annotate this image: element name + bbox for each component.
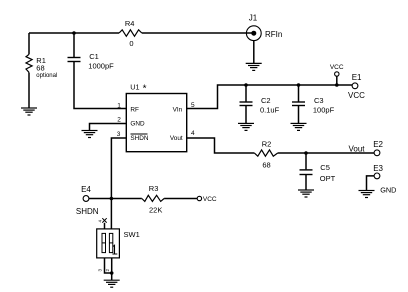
svg-text:2: 2 — [117, 116, 121, 123]
junction VCC stem — [335, 83, 339, 87]
op-amp U1 box — [126, 94, 186, 152]
resistor R4 — [119, 30, 142, 37]
wire SW1 top-left stub — [104, 223, 106, 229]
ground R1 — [21, 108, 37, 115]
resistor R1 — [26, 54, 32, 72]
capacitor C3 — [292, 102, 305, 106]
svg-text:R4: R4 — [125, 19, 135, 28]
svg-text:VCC: VCC — [348, 91, 365, 100]
svg-text:VCC: VCC — [330, 64, 344, 71]
svg-text:2: 2 — [105, 269, 110, 272]
SW1 digit 1 — [112, 245, 117, 254]
wire VCC stem — [336, 76, 338, 85]
svg-text:J1: J1 — [249, 14, 258, 23]
ground C5 — [298, 190, 314, 197]
resistor R2 — [254, 150, 277, 156]
capacitor C5 — [300, 170, 313, 175]
junction SHDN node — [110, 197, 114, 201]
svg-text:1: 1 — [117, 103, 121, 110]
wire VIn pin 5 to E1 — [187, 85, 352, 109]
svg-text:OPT: OPT — [320, 174, 336, 183]
svg-text:VIn: VIn — [173, 106, 183, 113]
wire C2 stem — [245, 85, 247, 123]
ground J1 — [246, 63, 262, 70]
svg-text:*: * — [143, 83, 147, 94]
svg-text:4: 4 — [191, 130, 195, 137]
resistor R3 — [142, 195, 164, 201]
junction C1 top — [72, 31, 76, 35]
svg-text:C5: C5 — [320, 163, 330, 172]
svg-text:U1: U1 — [130, 82, 139, 91]
capacitor C1 — [68, 58, 81, 62]
svg-text:R2: R2 — [262, 140, 272, 149]
svg-text:4: 4 — [97, 220, 102, 223]
wire C3 stem — [298, 85, 300, 123]
junction C5 top — [304, 151, 308, 155]
svg-text:RFIn: RFIn — [265, 30, 282, 39]
terminal E1 — [352, 83, 358, 89]
terminal E2 — [374, 150, 380, 156]
svg-text:Vout: Vout — [170, 135, 183, 142]
wire left vertical above R1 — [28, 33, 30, 54]
svg-text:VCC: VCC — [203, 196, 217, 203]
terminal E4 — [83, 196, 89, 202]
svg-text:SHDN: SHDN — [130, 135, 148, 142]
svg-text:C3: C3 — [314, 96, 324, 105]
ground U1 GND pin — [82, 131, 98, 138]
svg-text:C1: C1 — [89, 52, 99, 61]
SW1 no-connect X mark pin 4 — [102, 218, 106, 222]
svg-text:GND: GND — [380, 186, 396, 195]
wire R1 to ground — [28, 73, 30, 109]
connector J1 — [246, 14, 282, 41]
ground SW1 — [104, 280, 120, 287]
svg-text:3: 3 — [98, 269, 103, 272]
wire GND pin 2 — [90, 124, 127, 131]
wire R3 to VCC — [164, 198, 197, 200]
svg-text:Vout: Vout — [348, 144, 365, 153]
svg-text:22K: 22K — [149, 206, 162, 215]
junction C2 top — [244, 83, 248, 87]
svg-text:optional: optional — [36, 73, 57, 79]
ground C2 — [238, 123, 254, 130]
ground E3 — [359, 191, 375, 198]
wire R2 to E2 — [278, 152, 374, 154]
power VCC at R3 — [197, 196, 201, 200]
wire J1 to ground — [253, 41, 255, 64]
svg-text:100pF: 100pF — [313, 106, 335, 115]
svg-text:SHDN: SHDN — [76, 207, 99, 216]
svg-text:E2: E2 — [373, 140, 383, 149]
wire C1 bottom to RF pin — [74, 62, 126, 109]
junction SW1 bottom — [110, 271, 114, 275]
svg-text:0: 0 — [129, 39, 133, 48]
svg-text:68: 68 — [262, 161, 270, 170]
svg-text:GND: GND — [130, 121, 145, 128]
wire SW1 bottom-left stub — [105, 258, 112, 273]
capacitor C2 — [240, 102, 253, 106]
wire E3 to ground — [367, 176, 375, 190]
wire Vout pin 4 to R2 — [187, 138, 254, 153]
wire C5 stem — [305, 153, 307, 190]
junction C3 top — [297, 83, 301, 87]
svg-text:1000pF: 1000pF — [88, 61, 114, 70]
svg-text:E4: E4 — [81, 185, 91, 194]
svg-text:0.1uF: 0.1uF — [260, 106, 280, 115]
ground C3 — [291, 123, 307, 130]
svg-text:5: 5 — [191, 102, 195, 109]
svg-text:3: 3 — [117, 131, 121, 138]
wire E4 to R3 — [89, 198, 142, 200]
wire R4 to J1 — [142, 32, 254, 34]
svg-text:SW1: SW1 — [124, 230, 140, 239]
svg-text:RF: RF — [130, 106, 139, 113]
svg-text:68: 68 — [36, 64, 44, 73]
switch SW1 — [97, 229, 120, 258]
wire SHDN pin 3 to junction — [111, 138, 126, 199]
wire SW1 bottom to ground — [111, 258, 113, 280]
wire C1 top stem — [73, 33, 75, 57]
power VCC symbol — [335, 72, 339, 76]
svg-text:R3: R3 — [149, 184, 159, 193]
wire SW1 top — [110, 199, 112, 229]
wire top left horizontal to R4 — [29, 32, 119, 34]
svg-text:E3: E3 — [373, 164, 383, 173]
terminal E3 — [374, 173, 380, 179]
svg-text:C2: C2 — [261, 96, 271, 105]
svg-text:E1: E1 — [352, 73, 362, 82]
